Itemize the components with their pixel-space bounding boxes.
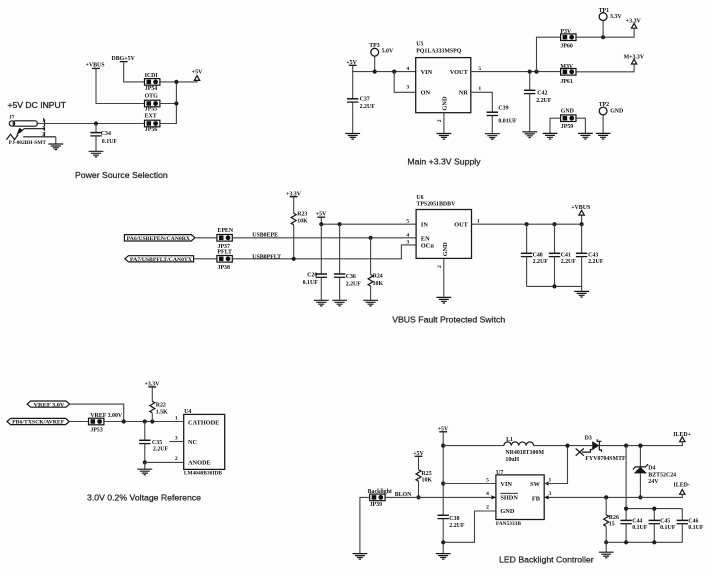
- svg-text:JP39: JP39: [370, 502, 382, 508]
- node: bottom rail C41: [552, 284, 556, 288]
- node: C38/GND junction: [441, 540, 445, 544]
- svg-text:PQ1LA333MSPQ: PQ1LA333MSPQ: [416, 49, 462, 55]
- svg-text:3.0V 0.2% Voltage Reference: 3.0V 0.2% Voltage Reference: [87, 492, 201, 502]
- wire: +5V stem down to C38: [442, 432, 444, 516]
- power +5V arrow (U6 IN): [316, 212, 327, 218]
- wire: D3 cathode to ILED+: [599, 442, 682, 446]
- ground (JP39): [353, 554, 368, 560]
- wire: ground rail to U4 ANODE: [145, 461, 184, 463]
- svg-text:3: 3: [406, 85, 409, 91]
- power switch U6 TPS2051BDBV: [406, 195, 480, 268]
- wire: JP59 right pad to ground: [576, 118, 585, 133]
- wire: capacitor bank bottom rail: [527, 286, 582, 291]
- wire: VREF tag to node: [70, 404, 124, 421]
- svg-text:C38: C38: [449, 516, 459, 522]
- svg-text:USB0PFLT: USB0PFLT: [252, 254, 281, 260]
- signal tag VREF 3.0V: [27, 401, 70, 408]
- testpoint TP3: [369, 43, 394, 71]
- svg-text:2.2UF: 2.2UF: [536, 98, 552, 104]
- svg-text:TPS2051BDBV: TPS2051BDBV: [416, 201, 456, 207]
- ground (C34): [89, 151, 104, 157]
- svg-text:VREF 3.0V: VREF 3.0V: [34, 402, 65, 408]
- svg-text:2.2UF: 2.2UF: [561, 259, 577, 265]
- svg-text:2: 2: [486, 505, 489, 511]
- svg-text:10K: 10K: [373, 281, 384, 287]
- svg-text:PA6/USBEPEN/CAN0RX: PA6/USBEPEN/CAN0RX: [127, 236, 191, 242]
- wire: NC pin stub: [169, 441, 183, 443]
- svg-text:Power Source Selection: Power Source Selection: [75, 170, 168, 180]
- svg-text:2: 2: [437, 119, 443, 122]
- wire: JP59 left pad to ground: [550, 118, 561, 133]
- svg-text:JP56: JP56: [145, 127, 157, 133]
- svg-text:JP38: JP38: [218, 265, 230, 271]
- node: TP3 junction: [373, 70, 377, 74]
- wire: cap bank bottom rail: [606, 541, 682, 543]
- node: D4 top: [638, 444, 642, 448]
- resistor R24: [368, 238, 383, 300]
- svg-text:GND: GND: [500, 508, 514, 515]
- svg-text:D3: D3: [585, 436, 592, 442]
- svg-text:PJ-002BH-SMT: PJ-002BH-SMT: [9, 140, 47, 146]
- svg-text:10K: 10K: [297, 219, 308, 225]
- svg-text:0.1UF: 0.1UF: [660, 525, 676, 531]
- svg-text:CATHODE: CATHODE: [188, 420, 219, 427]
- node: C41 branch: [552, 222, 556, 226]
- jumper JP38 (PFLT): [217, 250, 232, 271]
- testpoint TP1: [599, 8, 623, 37]
- svg-text:10uH: 10uH: [505, 457, 519, 463]
- power +5V arrow (L1 feed): [438, 426, 449, 432]
- node: C34 junction: [94, 121, 98, 125]
- svg-text:+VBUS: +VBUS: [86, 62, 106, 68]
- wire: VOUT rail: [471, 71, 561, 73]
- svg-text:1: 1: [549, 477, 552, 483]
- svg-text:NC: NC: [188, 439, 198, 446]
- ground (cap bank): [574, 291, 589, 297]
- node: R23 to PFLT net: [292, 257, 296, 261]
- wire: branch up to P3V jumper: [537, 37, 561, 71]
- capacitor C39: [487, 105, 517, 133]
- svg-text:GND: GND: [610, 108, 623, 114]
- node: VIN branch: [441, 481, 445, 485]
- power +3.3V arrow: [626, 19, 642, 29]
- testpoint TP2: [599, 102, 624, 133]
- svg-text:J7: J7: [9, 115, 15, 121]
- svg-text:1: 1: [478, 86, 481, 92]
- svg-text:0.1UF: 0.1UF: [632, 525, 648, 531]
- svg-text:EPEN: EPEN: [217, 228, 233, 234]
- capacitor C36: [334, 224, 361, 300]
- capacitor C20: [303, 224, 327, 300]
- svg-text:2.2UF: 2.2UF: [588, 259, 604, 265]
- svg-text:3: 3: [549, 491, 552, 497]
- svg-text:M+3.3V: M+3.3V: [624, 55, 645, 61]
- svg-text:FB: FB: [532, 496, 541, 503]
- node: C42 branch: [528, 70, 532, 74]
- svg-text:SW: SW: [530, 481, 541, 488]
- wire: U7 GND elbow to C38 bottom: [443, 511, 496, 542]
- svg-text:C39: C39: [498, 105, 508, 111]
- svg-text:ON: ON: [421, 90, 431, 97]
- svg-text:JP54: JP54: [145, 86, 157, 92]
- capacitor C37: [347, 72, 375, 134]
- power M+3.3V arrow: [624, 55, 645, 65]
- svg-text:+5V: +5V: [192, 70, 203, 76]
- node: TP1 junction: [601, 35, 605, 39]
- svg-text:15: 15: [609, 521, 615, 527]
- node: VREF join: [122, 419, 126, 423]
- ground (J7 pin2): [55, 137, 57, 144]
- wire: R26 to ground: [605, 542, 607, 552]
- net +VBUS: [86, 62, 145, 103]
- node: D4 branch: [638, 444, 642, 448]
- svg-text:C42: C42: [537, 90, 547, 96]
- node: cap rail C44 top: [624, 507, 628, 511]
- wire: net USB0PFLT to U6 OCn: [232, 245, 416, 259]
- svg-text:LED Backlight Controller: LED Backlight Controller: [499, 555, 594, 565]
- wire: JP39 left to ground: [360, 497, 370, 553]
- wire: NR pin to C39: [471, 92, 493, 112]
- node: ANODE/ground junction: [143, 460, 147, 464]
- node: C36 branch: [338, 222, 342, 226]
- zener diode D4 BZT52C24: [633, 446, 676, 498]
- voltage reference U4 LM4040B30IDB: [175, 409, 225, 477]
- ground (C37): [345, 134, 360, 140]
- node: SW to L1/D3: [565, 444, 569, 448]
- svg-text:5: 5: [406, 218, 409, 224]
- wire: ON pin branch: [394, 72, 416, 93]
- svg-text:3: 3: [175, 436, 178, 442]
- power +3.3V arrow (R22): [145, 382, 161, 388]
- wire: jumper bus to +5V: [160, 80, 197, 123]
- node: bus row2: [174, 101, 178, 105]
- jumper JP56 (EXT): [145, 114, 160, 133]
- ground (JP59 right): [578, 133, 593, 139]
- wire: JP60 to +3.3V: [576, 28, 634, 37]
- regulator U5 PQ1LA333MSPQ: [406, 42, 481, 123]
- svg-text:2: 2: [175, 456, 178, 462]
- node: R24 to EPE net: [369, 236, 373, 240]
- svg-text:PFLT: PFLT: [217, 250, 232, 256]
- jumper JP55 (OTG): [145, 93, 160, 112]
- power ILED+ arrow: [673, 432, 691, 442]
- wire: tag to JP38: [194, 258, 217, 260]
- svg-text:R26: R26: [609, 515, 619, 521]
- svg-text:1: 1: [42, 117, 45, 123]
- svg-text:JP61: JP61: [560, 79, 572, 85]
- node: +5V/IN junction: [319, 222, 323, 226]
- node: L1 branch: [441, 444, 445, 448]
- svg-text:VOUT: VOUT: [450, 69, 469, 76]
- svg-text:ILED+: ILED+: [673, 432, 691, 438]
- svg-text:IN: IN: [421, 221, 428, 228]
- wire: tag to JP37: [195, 237, 217, 239]
- node: ON branch junction: [392, 70, 396, 74]
- svg-text:FYV0704SMTF: FYV0704SMTF: [585, 456, 626, 462]
- svg-text:ANODE: ANODE: [188, 459, 211, 466]
- svg-text:3.3V: 3.3V: [610, 14, 622, 20]
- svg-text:2.2UF: 2.2UF: [346, 282, 362, 288]
- capacitor C41: [549, 224, 577, 286]
- svg-text:R24: R24: [373, 273, 383, 279]
- wire: U6 GND pin to ground: [443, 258, 445, 297]
- svg-text:C36: C36: [346, 274, 356, 280]
- node: R26 bottom: [604, 540, 608, 544]
- svg-text:C35: C35: [152, 440, 162, 446]
- wire: JP61 to M+3.3V: [576, 64, 634, 72]
- svg-text:ILED-: ILED-: [674, 483, 690, 489]
- svg-text:1.5K: 1.5K: [156, 409, 168, 415]
- svg-text:LM4040B30IDB: LM4040B30IDB: [184, 470, 222, 476]
- wire: output to cap bank top rail: [626, 446, 682, 509]
- svg-text:JP60: JP60: [560, 43, 572, 49]
- svg-text:JP59: JP59: [561, 124, 573, 130]
- capacitor C34: [90, 124, 117, 152]
- ground (C36): [332, 300, 347, 306]
- jumper JP59 (GND): [561, 108, 576, 129]
- svg-text:OTG: OTG: [145, 93, 159, 99]
- wire: +5V rail to U5 VIN: [353, 65, 416, 71]
- svg-text:OUT: OUT: [454, 221, 468, 228]
- svg-text:R25: R25: [422, 471, 432, 477]
- connector J7 barrel jack: [9, 115, 45, 138]
- svg-text:0.01UF: 0.01UF: [498, 119, 517, 125]
- svg-text:24V: 24V: [648, 479, 659, 485]
- svg-text:1: 1: [477, 218, 480, 224]
- svg-text:+5V DC INPUT: +5V DC INPUT: [8, 100, 67, 110]
- signal tag PA7/USBPFLT/CAN0TX: [125, 256, 194, 263]
- node: C44 bottom: [624, 540, 628, 544]
- node: R26 branch: [604, 495, 608, 499]
- power +VBUS arrow: [571, 205, 591, 215]
- node: cap rail C45 top: [652, 507, 656, 511]
- resistor R25: [416, 456, 432, 497]
- svg-text:C20: C20: [307, 272, 317, 278]
- svg-text:2.2UF: 2.2UF: [533, 259, 549, 265]
- jumper JP39 (BLON): [370, 494, 385, 508]
- wire: JP53 to U4 CATHODE: [104, 421, 184, 423]
- jumper JP60 (P3V): [560, 29, 576, 49]
- wire: tag to JP53: [69, 421, 88, 423]
- svg-text:4: 4: [406, 66, 409, 72]
- svg-text:U5: U5: [416, 42, 423, 48]
- node: output cap branch: [624, 444, 628, 448]
- wire: SW pin up to L1/D3 node: [544, 446, 567, 484]
- node: bus row1: [174, 80, 178, 84]
- svg-text:10K: 10K: [422, 478, 433, 484]
- power +5V arrow (R25): [413, 451, 424, 457]
- svg-text:5: 5: [486, 477, 489, 483]
- wire: L1 to D3 anode: [534, 445, 593, 447]
- wire: U6 OUT to +VBUS: [472, 215, 582, 224]
- svg-text:1: 1: [175, 416, 178, 422]
- ground (R26/caps): [599, 552, 614, 558]
- signal tag PA6/USBEPEN/CAN0RX: [124, 235, 194, 242]
- ground (U5): [437, 134, 452, 140]
- capacitor C45: [649, 509, 676, 543]
- wire: +5V to U6 IN pin: [321, 217, 416, 224]
- svg-text:2.2UF: 2.2UF: [449, 523, 465, 529]
- svg-text:5.0V: 5.0V: [382, 48, 394, 54]
- capacitor C46: [677, 509, 704, 543]
- node: C45 bottom: [652, 540, 656, 544]
- wire: net USB0EPE to U6 EN: [232, 237, 416, 239]
- wire: jack pin1 to EXT jumper: [37, 123, 144, 125]
- svg-text:VBUS Fault Protected Switch: VBUS Fault Protected Switch: [392, 314, 505, 324]
- ground (C35/U4): [144, 462, 146, 469]
- svg-text:R23: R23: [297, 211, 307, 217]
- node: P3V branch: [534, 70, 538, 74]
- svg-text:+3.3V: +3.3V: [626, 19, 642, 25]
- power +5V arrow: [192, 70, 203, 81]
- svg-text:C43: C43: [588, 252, 598, 258]
- svg-text:VIN: VIN: [500, 481, 512, 488]
- jumper JP37 (EPEN): [217, 228, 234, 250]
- svg-text:0.1UF: 0.1UF: [102, 139, 118, 145]
- svg-text:0.1UF: 0.1UF: [303, 280, 319, 286]
- svg-text:EN: EN: [421, 235, 430, 242]
- resistor R26: [604, 497, 619, 542]
- signal tag PB6/TXSCK/AVREF: [7, 418, 69, 425]
- svg-text:R22: R22: [156, 403, 166, 409]
- ground (C42): [522, 132, 537, 138]
- svg-text:C34: C34: [101, 131, 111, 137]
- svg-text:PB6/TXSCK/AVREF: PB6/TXSCK/AVREF: [12, 420, 64, 426]
- node: C40 branch: [525, 222, 529, 226]
- svg-text:EXT: EXT: [145, 114, 157, 120]
- node: C43 branch: [580, 222, 584, 226]
- net DBG+5V: [112, 56, 145, 82]
- wire: BLON net to SHDN pin: [385, 496, 496, 498]
- capacitor C43: [576, 224, 604, 286]
- svg-text:C37: C37: [360, 96, 370, 102]
- svg-text:JP53: JP53: [90, 427, 102, 433]
- jumper JP61 (M3V): [560, 64, 576, 85]
- capacitor C38: [438, 515, 465, 553]
- svg-text:L1: L1: [506, 437, 513, 443]
- svg-text:SHDN: SHDN: [500, 495, 518, 502]
- ground (C39): [485, 134, 500, 140]
- power +3.3V arrow (R23 pullup): [286, 191, 302, 197]
- svg-text:4: 4: [486, 491, 489, 497]
- svg-text:VIN: VIN: [421, 69, 433, 76]
- svg-text:NR4018T100M: NR4018T100M: [505, 450, 544, 456]
- svg-text:BZT52C24: BZT52C24: [648, 472, 676, 478]
- node: R22 branch: [150, 419, 154, 423]
- ground (TP2): [596, 133, 611, 139]
- capacitor C44: [620, 509, 647, 543]
- node: C35 branch: [143, 419, 147, 423]
- svg-text:FAN5333B: FAN5333B: [496, 521, 521, 527]
- node: R25 to BLON net: [416, 495, 420, 499]
- svg-text:GND: GND: [561, 108, 574, 114]
- jumper JP53 (VREF): [89, 413, 123, 434]
- svg-text:JP55: JP55: [145, 107, 157, 113]
- power ILED- arrow: [674, 483, 690, 495]
- resistor R23: [291, 197, 308, 259]
- capacitor C40: [521, 224, 548, 286]
- capacitor C42: [524, 72, 552, 132]
- ground (JP59 left): [543, 133, 558, 139]
- svg-text:C40: C40: [533, 252, 543, 258]
- ground (U6): [436, 297, 451, 303]
- svg-text:2.2UF: 2.2UF: [360, 104, 376, 110]
- svg-text:C41: C41: [561, 252, 571, 258]
- ground (C38): [436, 554, 451, 560]
- wire: +5V to L1: [443, 445, 504, 447]
- svg-text:+VBUS: +VBUS: [571, 205, 591, 211]
- svg-text:USB0EPE: USB0EPE: [252, 232, 278, 238]
- DNP mark (X) at D3: [576, 449, 593, 456]
- svg-text:C45: C45: [660, 518, 670, 524]
- svg-text:U6: U6: [416, 195, 423, 201]
- svg-text:C46: C46: [688, 518, 698, 524]
- ground (R24): [363, 300, 378, 306]
- inductor L1 NR4018T100M: [504, 437, 545, 463]
- svg-text:OCn: OCn: [421, 242, 434, 249]
- svg-text:PA7/USBPFLT/CAN0TX: PA7/USBPFLT/CAN0TX: [130, 257, 192, 263]
- svg-text:5: 5: [478, 66, 481, 72]
- power +5V arrow (supply to U5): [346, 60, 357, 66]
- svg-text:GND: GND: [442, 96, 449, 110]
- jumper JP54 (ICDI): [145, 73, 160, 92]
- svg-text:D4: D4: [648, 465, 655, 471]
- svg-text:4: 4: [406, 232, 409, 238]
- ground (C20): [314, 300, 329, 306]
- J7 switch contact: [7, 128, 56, 140]
- svg-text:Main +3.3V Supply: Main +3.3V Supply: [407, 157, 481, 167]
- svg-text:3: 3: [406, 239, 409, 245]
- wire: U5 GND pin to ground: [443, 113, 445, 134]
- svg-text:2: 2: [437, 265, 443, 268]
- resistor R22: [150, 387, 168, 422]
- svg-text:2.2UF: 2.2UF: [153, 446, 169, 452]
- svg-text:NR: NR: [459, 90, 469, 97]
- svg-text:GND: GND: [442, 242, 449, 256]
- LED driver U7 FAN5333B: [486, 470, 551, 527]
- svg-text:0.1UF: 0.1UF: [688, 525, 704, 531]
- capacitor C35: [139, 422, 168, 463]
- node: D4 bottom on FB net: [638, 495, 642, 499]
- diode D3 FYV0704SMTF: [585, 436, 626, 462]
- wire: FB net row: [544, 494, 682, 497]
- wire: VIN row: [443, 483, 496, 485]
- svg-text:C44: C44: [632, 518, 642, 524]
